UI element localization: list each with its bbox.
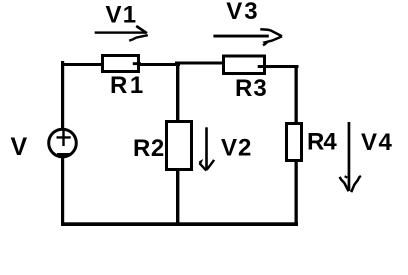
- wire: middle vertical lower (R2 bottom to bottom rail): [176, 169, 179, 226]
- svg-text:V3: V3: [226, 0, 259, 25]
- voltage source minus sign: [57, 153, 70, 156]
- resistor R1 (box): [103, 56, 139, 72]
- arrow V1 (current arrow over R1): [95, 26, 148, 41]
- wire: right vertical upper (corner to R4 top): [295, 65, 298, 124]
- svg-text:V: V: [11, 133, 28, 161]
- resistor R3 (box): [224, 56, 265, 74]
- svg-text:R3: R3: [235, 75, 268, 102]
- svg-text:V2: V2: [221, 135, 252, 162]
- voltage source V (circle with + and -): [49, 129, 77, 157]
- svg-text:R2: R2: [133, 135, 165, 162]
- voltage source plus sign: [57, 131, 71, 147]
- resistor R2 (box): [167, 122, 192, 170]
- arrow V3 (current arrow over R3): [213, 29, 282, 45]
- svg-text:R4: R4: [307, 129, 337, 156]
- svg-text:V4: V4: [361, 129, 393, 156]
- wire: right vertical lower (R4 bottom to bottom rail): [295, 160, 298, 226]
- wire: left vertical lower (source - to bottom rail): [61, 156, 64, 226]
- wire: left vertical upper (node A down to source +): [61, 61, 64, 129]
- svg-text:R1: R1: [110, 72, 146, 99]
- arrow V4 (voltage arrow beside R4): [340, 122, 361, 192]
- wire: top horizontal middle segment (junction to R3 left): [175, 62, 223, 65]
- wire stub inside R1 right end: [133, 62, 141, 65]
- wire: top horizontal left segment (node A to middle junction): [61, 63, 180, 66]
- resistor R4 (box): [287, 124, 302, 161]
- wire: middle vertical upper (junction to R2 top): [176, 63, 179, 122]
- wire: top horizontal right segment (R3 right to corner): [266, 65, 299, 68]
- wire stub inside R3 right end: [258, 65, 267, 68]
- svg-text:V1: V1: [106, 2, 138, 29]
- arrow V2 (voltage arrow beside R2): [199, 127, 214, 170]
- wire: bottom rail: [61, 222, 298, 226]
